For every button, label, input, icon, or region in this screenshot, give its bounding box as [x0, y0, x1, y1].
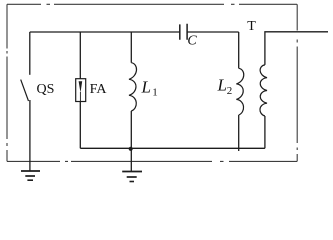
- svg-text:2: 2: [227, 85, 233, 97]
- inductor L2 coil (3 loops, bulge right): [236, 68, 243, 115]
- svg-text:L: L: [217, 76, 227, 95]
- capacitor C plates: [180, 24, 187, 40]
- enclosure border top (dash-dot): [7, 3, 297, 5]
- fuse FA: bottom lead: [79, 102, 81, 149]
- node junction dot: [129, 147, 133, 151]
- inductor L2: bottom lead: [238, 115, 240, 151]
- fuse FA arrow: [79, 81, 83, 92]
- switch QS: blade (open): [21, 80, 29, 101]
- fuse FA: top lead: [79, 32, 81, 79]
- svg-text:1: 1: [152, 86, 158, 98]
- wire: bottom wire FA to T leg: [80, 147, 265, 149]
- wire: L1 junction to ground: [130, 148, 132, 171]
- inductor L1: bottom lead: [130, 111, 132, 148]
- enclosure border right (dash-dot): [296, 4, 298, 161]
- svg-text:L: L: [141, 77, 151, 96]
- fuse FA body: [76, 79, 86, 102]
- enclosure border left (dash-dot): [6, 4, 8, 161]
- svg-text:T: T: [247, 19, 256, 34]
- switch QS: top lead: [29, 32, 31, 75]
- inductor L1 coil (3 loops, bulge right): [129, 63, 137, 111]
- transformer secondary coil (4 loops, bulge left): [260, 65, 267, 116]
- svg-text:QS: QS: [37, 82, 55, 97]
- enclosure border bottom (dash-dot): [7, 160, 297, 162]
- inductor L1: top lead: [130, 32, 132, 63]
- inductor L2: top lead: [238, 32, 240, 68]
- ground (L1): [122, 172, 142, 182]
- wire: bus from capacitor right plate to L2 branch: [187, 31, 239, 33]
- wire: top bus from QS to capacitor left plate: [30, 31, 180, 33]
- svg-text:FA: FA: [90, 82, 108, 97]
- svg-text:C: C: [187, 34, 197, 49]
- switch QS: bottom lead to ground: [29, 100, 31, 171]
- ground (QS): [21, 171, 40, 180]
- transformer secondary: bottom lead: [264, 116, 266, 148]
- transformer secondary: top lead and exit wire: [265, 32, 328, 65]
